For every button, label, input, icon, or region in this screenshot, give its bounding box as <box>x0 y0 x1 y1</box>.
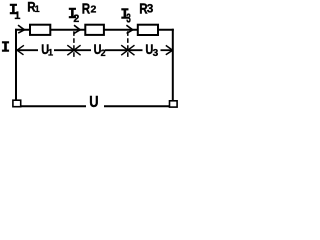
svg-text:R: R <box>82 2 91 18</box>
svg-text:3: 3 <box>147 2 154 16</box>
svg-text:3: 3 <box>153 48 159 59</box>
svg-text:2: 2 <box>91 4 97 16</box>
svg-text:U: U <box>89 94 98 111</box>
svg-text:1: 1 <box>35 4 40 14</box>
svg-text:1: 1 <box>48 48 54 59</box>
svg-text:3: 3 <box>126 12 131 26</box>
svg-text:1: 1 <box>14 10 20 22</box>
svg-text:2: 2 <box>101 48 106 58</box>
svg-text:2: 2 <box>73 13 79 25</box>
svg-text:I: I <box>1 40 10 57</box>
